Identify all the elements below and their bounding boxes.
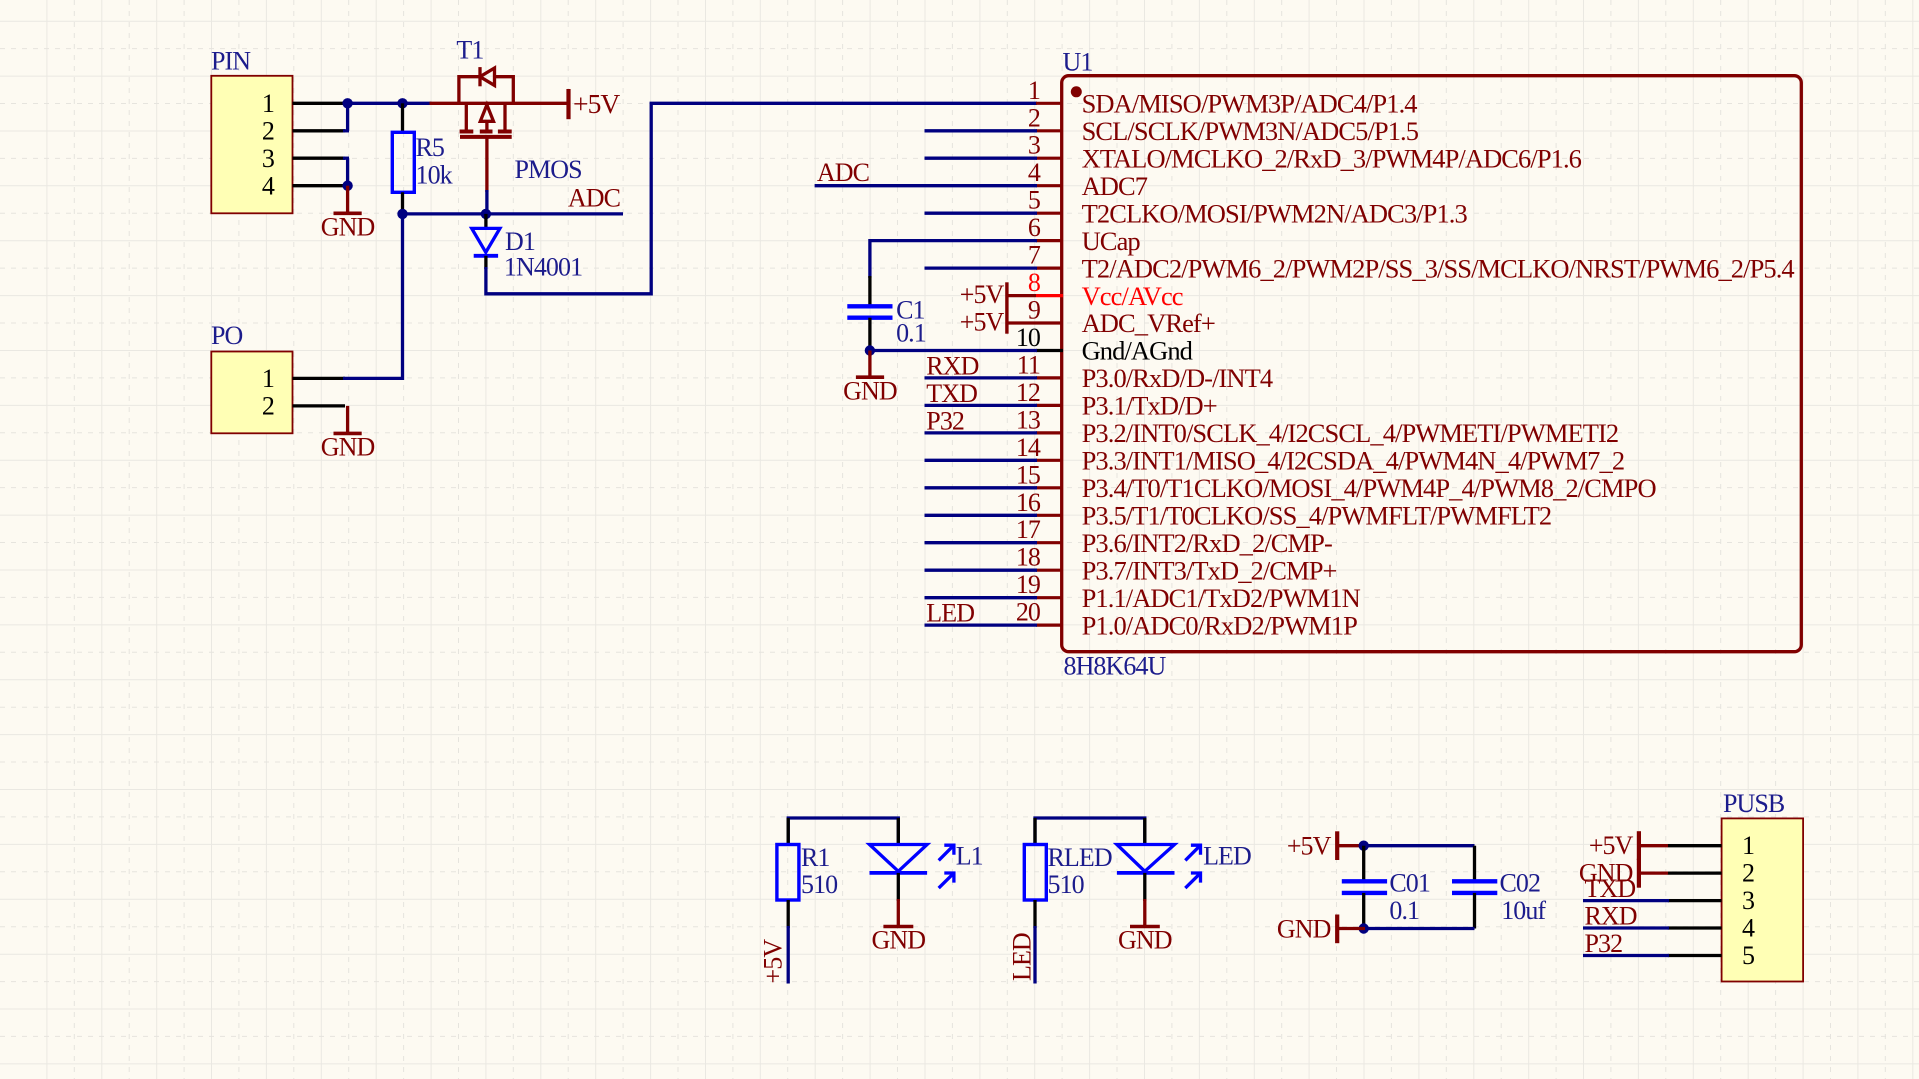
PUSB pin 4 lead [1668,926,1722,929]
LED indicator diode [1117,845,1201,889]
svg-text:GND: GND [872,926,926,955]
wire R5 top lead [401,103,404,133]
LED2 bottom lead [1143,873,1146,901]
svg-text:0.1: 0.1 [1389,896,1419,925]
svg-text:14: 14 [1016,433,1041,462]
wire R5 bottom lead [401,192,404,216]
svg-text:R5: R5 [416,133,445,162]
C01 top lead [1362,846,1365,880]
wire U1 pin16 [925,514,1038,517]
svg-text:P3.1/TxD/D+: P3.1/TxD/D+ [1082,391,1217,421]
svg-text:1: 1 [262,89,274,118]
wire U1 pin15 [925,486,1038,489]
junction pin4/GND [342,181,352,191]
svg-text:510: 510 [801,870,838,899]
svg-text:ADC7: ADC7 [1082,171,1148,201]
svg-text:12: 12 [1016,378,1040,407]
L1 bottom lead [897,873,900,901]
svg-text:11: 11 [1017,350,1040,379]
wire pin2 stub [343,129,349,132]
svg-text:+5V: +5V [759,939,788,984]
svg-text:1: 1 [262,364,274,393]
svg-text:XTALO/MCLKO_2/RxD_3/PWM4P/ADC6: XTALO/MCLKO_2/RxD_3/PWM4P/ADC6/P1.6 [1082,143,1582,173]
svg-text:GND: GND [1118,926,1172,955]
U1 pin 17 stub [1036,541,1063,544]
U1 pin 16 stub [1036,514,1063,517]
wire T1 drain to ADC node [485,190,488,216]
svg-text:10k: 10k [416,161,453,190]
svg-text:TXD: TXD [1585,874,1636,903]
svg-text:2: 2 [1742,859,1754,888]
PUSB pin 2 lead [1668,871,1722,874]
svg-text:LED: LED [926,599,974,628]
wire ADC net [403,212,624,215]
svg-text:P32: P32 [1585,929,1623,958]
svg-text:LED: LED [1008,933,1037,981]
C02 top lead [1473,846,1476,880]
PUSB pin 5 lead [1668,954,1722,957]
svg-text:L1: L1 [956,842,983,871]
PO pin 2 lead [293,404,346,407]
U1 pin 3 stub [1036,157,1063,160]
U1 pin 13 stub [1036,431,1063,434]
svg-text:P3.6/INT2/RxD_2/CMP-: P3.6/INT2/RxD_2/CMP- [1082,528,1332,558]
U1 pin 10 stub [1036,349,1063,352]
wire R1 top to L1 [788,818,898,845]
svg-text:10uf: 10uf [1501,896,1546,925]
svg-text:PIN: PIN [211,47,251,76]
RLED bottom lead [1033,900,1036,928]
wire U1 pin11 [925,376,1038,379]
svg-text:T2CLKO/MOSI/PWM2N/ADC3/P1.3: T2CLKO/MOSI/PWM2N/ADC3/P1.3 [1082,198,1468,228]
svg-text:RXD: RXD [926,351,978,380]
transistor T1 [459,67,513,137]
wire U1 pin14 [925,459,1038,462]
wire pin3 stub [343,157,349,160]
PIN pin 1 lead [293,102,346,105]
wire U1 pin2 [925,129,1038,132]
power +5V (C01) [1287,831,1365,860]
svg-text:U1: U1 [1063,48,1093,77]
T1 source rail wire [430,102,567,105]
svg-text:TXD: TXD [926,379,977,408]
C02 bottom lead [1473,893,1476,929]
svg-text:GND: GND [321,433,375,462]
svg-text:510: 510 [1048,870,1085,899]
svg-text:7: 7 [1028,241,1041,270]
T1 drain lead [485,137,488,192]
PUSB pin 3 lead [1668,899,1722,902]
svg-text:GND: GND [321,213,375,242]
wire pin4 stub [343,184,349,187]
connector PIN [211,47,293,214]
junction C1/pin10 [865,345,875,355]
C1 bottom lead [868,318,871,349]
RLED top lead [1033,818,1036,846]
U1 pin 14 stub [1036,459,1063,462]
junction +5V/C01 [1359,841,1369,851]
svg-text:1N4001: 1N4001 [504,253,582,282]
wire U1 pin7 [925,266,1038,269]
D1 top lead [484,214,487,229]
U1 pin 15 stub [1036,486,1063,489]
junction R5/ADC [397,209,407,219]
power +5V (U1 pin8/9) [960,280,1036,336]
svg-text:UCap: UCap [1082,226,1141,256]
PIN pin 2 lead [293,129,346,132]
wire PO pin1 to ADC node [343,214,403,379]
svg-text:RXD: RXD [1585,901,1637,930]
svg-text:3: 3 [1742,886,1754,915]
ground GND (C01) [1277,915,1365,944]
svg-text:R1: R1 [801,843,830,872]
wire P32 (PUSB) [1583,954,1669,957]
wire pin2 up to pin1 [346,102,349,131]
svg-text:4: 4 [262,172,275,201]
svg-text:P1.0/ADC0/RxD2/PWM1P: P1.0/ADC0/RxD2/PWM1P [1082,610,1358,640]
C1 top lead [868,276,871,305]
svg-text:Gnd/AGnd: Gnd/AGnd [1082,336,1193,366]
svg-text:GND: GND [1277,915,1331,944]
svg-text:5: 5 [1742,941,1754,970]
diode D1 [472,228,500,255]
svg-text:2: 2 [262,392,274,421]
svg-text:P1.1/ADC1/TxD2/PWM1N: P1.1/ADC1/TxD2/PWM1N [1082,583,1361,613]
svg-text:2: 2 [262,117,274,146]
svg-text:8: 8 [1028,268,1041,297]
svg-text:P3.0/RxD/D-/INT4: P3.0/RxD/D-/INT4 [1082,363,1273,393]
U1 pin 11 stub [1036,376,1063,379]
svg-text:SCL/SCLK/PWM3N/ADC5/P1.5: SCL/SCLK/PWM3N/ADC5/P1.5 [1082,116,1419,146]
wire pin1 to T1 [343,102,432,105]
svg-text:3: 3 [262,144,274,173]
U1 pin 8 stub [1036,294,1063,297]
wire LED net (RLED) [1033,926,1036,984]
junction GND/C01 [1359,923,1369,933]
U1 pin 5 stub [1036,212,1063,215]
PIN pin 3 lead [293,157,346,160]
svg-text:2: 2 [1028,103,1040,132]
svg-text:P3.4/T0/T1CLKO/MOSI_4/PWM4P_4/: P3.4/T0/T1CLKO/MOSI_4/PWM4P_4/PWM8_2/CMP… [1082,473,1657,503]
svg-text:ADC_VRef+: ADC_VRef+ [1082,308,1215,338]
power +5V (PUSB) [1589,831,1668,860]
svg-text:17: 17 [1016,515,1041,544]
svg-text:P32: P32 [926,406,964,435]
svg-text:8H8K64U: 8H8K64U [1064,652,1167,681]
ground GND (PO) [321,406,375,462]
svg-text:PUSB: PUSB [1723,789,1785,818]
svg-text:P3.7/INT3/TxD_2/CMP+: P3.7/INT3/TxD_2/CMP+ [1082,555,1337,585]
svg-text:18: 18 [1016,543,1041,572]
ground GND (LED) [1118,899,1172,955]
wire pin3 down to pin4 [346,158,349,187]
U1 pin 6 stub [1036,239,1063,242]
U1 pin 18 stub [1036,569,1063,572]
svg-text:P3.2/INT0/SCLK_4/I2CSCL_4/PWME: P3.2/INT0/SCLK_4/I2CSCL_4/PWMETI/PWMETI2 [1082,418,1619,448]
wire +5V net (R1) [787,926,790,984]
svg-text:C02: C02 [1500,869,1541,898]
U1 pin 19 stub [1036,596,1063,599]
wire U1 pin17 [925,541,1038,544]
junction D1/ADC [481,209,491,219]
junction pin1/R5 [397,98,407,108]
svg-text:+5V: +5V [1287,832,1332,861]
svg-text:P3.5/T1/T0CLKO/SS_4/PWMFLT/PWM: P3.5/T1/T0CLKO/SS_4/PWMFLT/PWMFLT2 [1082,501,1552,531]
svg-text:ADC: ADC [817,158,869,187]
U1 pin 12 stub [1036,404,1063,407]
resistor RLED [1024,843,1112,900]
wire U1 pin13 [925,431,1038,434]
svg-text:+5V: +5V [960,308,1005,337]
svg-text:1: 1 [1028,76,1040,105]
svg-text:20: 20 [1016,598,1041,627]
R1 top lead [787,818,790,846]
capacitor C1 [847,306,892,317]
wire GND rail C01-C02 [1364,927,1475,930]
ground GND (PUSB) [1579,859,1668,888]
U1 pin 4 stub [1036,184,1063,187]
svg-text:LED: LED [1203,842,1251,871]
wire TXD (PUSB) [1583,899,1669,902]
U1 pin 2 stub [1036,129,1063,132]
ground GND (L1) [872,899,926,955]
D1 bottom lead [484,256,487,269]
svg-text:13: 13 [1016,405,1040,434]
wire U1 pin6 to C1 [870,241,1037,278]
svg-text:T1: T1 [456,36,483,65]
LED L1 [870,845,954,889]
svg-text:T2/ADC2/PWM6_2/PWM2P/SS_3/SS/M: T2/ADC2/PWM6_2/PWM2P/SS_3/SS/MCLKO/NRST/… [1082,253,1795,283]
U1 pin 7 stub [1036,267,1063,270]
power +5V (T1) [569,88,621,119]
wire RLED top to LED [1035,818,1145,845]
svg-text:Vcc/AVcc: Vcc/AVcc [1082,281,1183,311]
svg-text:15: 15 [1016,460,1040,489]
svg-text:P3.3/INT1/MISO_4/I2CSDA_4/PWM4: P3.3/INT1/MISO_4/I2CSDA_4/PWM4N_4/PWM7_2 [1082,446,1625,476]
wire U1 pin20 [925,623,1038,626]
svg-text:SDA/MISO/PWM3P/ADC4/P1.4: SDA/MISO/PWM3P/ADC4/P1.4 [1082,89,1418,119]
wire U1 pin5 [925,212,1038,215]
svg-text:5: 5 [1028,186,1040,215]
svg-text:4: 4 [1028,158,1041,187]
R1 bottom lead [787,900,790,928]
svg-text:+5V: +5V [1589,831,1634,860]
svg-text:PO: PO [211,321,243,350]
svg-text:RLED: RLED [1048,843,1112,872]
PO pin 1 lead [293,377,346,380]
PIN pin 4 lead [293,184,346,187]
svg-text:ADC: ADC [568,184,620,213]
resistor R1 [777,843,838,900]
svg-text:19: 19 [1016,570,1040,599]
svg-text:4: 4 [1742,914,1755,943]
capacitor C02 [1452,881,1497,893]
wire U1 pin4 (ADC) [815,184,1037,187]
U1 pin 1 stub [1036,102,1063,105]
capacitor C01 [1342,881,1387,893]
junction pin1/pin2 [342,98,352,108]
svg-text:+5V: +5V [960,280,1005,309]
svg-text:9: 9 [1028,296,1040,325]
svg-text:GND: GND [843,377,897,406]
L1 top lead [897,818,900,846]
connector PUSB [1722,789,1804,982]
C01 bottom lead [1362,893,1365,929]
svg-text:C01: C01 [1389,869,1430,898]
wire RXD (PUSB) [1583,926,1669,929]
svg-text:10: 10 [1016,323,1041,352]
wire +5V rail to C02 [1364,844,1475,847]
svg-text:PMOS: PMOS [515,155,582,184]
svg-text:0.1: 0.1 [896,319,926,348]
IC U1 body [1062,48,1802,681]
U1 pin 20 stub [1036,623,1063,626]
svg-text:3: 3 [1028,131,1040,160]
svg-text:6: 6 [1028,213,1041,242]
wire U1 pin18 [925,569,1038,572]
wire U1 pin3 [925,157,1038,160]
svg-text:1: 1 [1742,831,1754,860]
wire D1 to U1 pin1 [486,103,1037,293]
resistor R5 [392,132,452,192]
svg-text:+5V: +5V [573,88,620,119]
svg-text:16: 16 [1016,488,1041,517]
wire U1 pin19 [925,596,1038,599]
PUSB pin 1 lead [1668,844,1722,847]
ground GND (PIN) [321,186,375,242]
wire U1 pin10 [870,349,1037,352]
LED2 top lead [1143,818,1146,846]
wire U1 pin12 [925,404,1038,407]
ground GND (C1) [843,351,897,406]
connector PO [211,321,293,434]
U1 pin 9 stub [1036,321,1063,324]
